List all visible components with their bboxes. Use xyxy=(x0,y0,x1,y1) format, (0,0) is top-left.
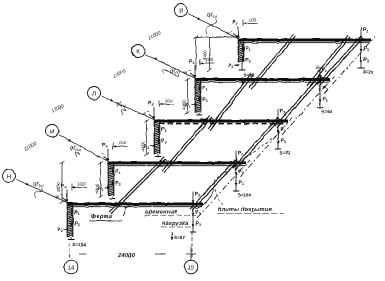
load P1 row К left column xyxy=(198,85,208,92)
load P4 row Л above beam xyxy=(148,101,155,120)
axis line М xyxy=(59,135,109,162)
axis circle М xyxy=(46,125,59,138)
load P3 row И left column xyxy=(241,56,251,64)
axis spacing dimension 12000 xyxy=(50,103,65,115)
roof slab diagonal (left) Н-М xyxy=(109,157,166,214)
wind load w row К xyxy=(184,70,196,77)
load P1 row Л right support xyxy=(277,127,286,133)
beam (ферма) row Н xyxy=(68,204,203,207)
dimension 100 row М xyxy=(113,141,128,150)
column base tick & reaction S=113 row К xyxy=(196,113,214,123)
label временная нагрузка (temporary load) xyxy=(144,188,213,227)
axis line Н xyxy=(16,179,68,203)
column base tick & reaction S=104 row Н xyxy=(68,237,87,247)
column base tick & reaction S=113 row Л xyxy=(155,154,173,164)
load P3 row Л left column xyxy=(157,137,167,145)
load P3 row К right support xyxy=(319,97,328,103)
dimension 24000 xyxy=(79,247,196,261)
hold-down arrow below И column base xyxy=(241,77,244,84)
load P1 row Л left column xyxy=(157,126,167,133)
beam (ферма) row Л xyxy=(155,121,288,124)
load label ql(н) xyxy=(33,181,44,199)
axis line И xyxy=(188,14,239,39)
svg-text:14: 14 xyxy=(68,265,75,272)
dimension 100 row Л xyxy=(159,99,174,108)
axis circle 14 xyxy=(64,260,78,274)
load P2 row Н right support xyxy=(192,192,201,204)
load P3 row М left column xyxy=(111,179,121,187)
axis spacing dimension 11000 xyxy=(23,141,38,153)
svg-text:100: 100 xyxy=(249,18,257,23)
svg-text:S=104: S=104 xyxy=(238,193,252,198)
axis 14 dashed line xyxy=(69,243,71,260)
right support line row Л xyxy=(277,121,279,149)
axis spacing dimension 11000 xyxy=(147,30,162,42)
axis 15 dash-dot К-И xyxy=(324,37,375,94)
load P3 row Н left column xyxy=(70,220,80,228)
load P2 row Л right support xyxy=(277,109,286,121)
roof slab diagonal (right) М-Л xyxy=(233,117,280,170)
load P4 row И above beam xyxy=(232,20,239,39)
roof slab diagonal (right) Л-К xyxy=(275,76,322,128)
axis 15 dash-dot Н-М xyxy=(197,160,250,218)
column base tick & reaction S=110 row М xyxy=(109,196,127,206)
right support line row М xyxy=(235,163,237,191)
column row Н (hatched) xyxy=(67,203,73,238)
svg-text:К: К xyxy=(136,48,140,55)
load label ql(к) xyxy=(163,68,180,77)
load P2 row М right support xyxy=(235,151,244,163)
svg-text:Н: Н xyxy=(7,173,11,180)
load P1 row М right support xyxy=(235,169,244,175)
load P1 row Н right support xyxy=(192,210,201,216)
column row И (hatched) xyxy=(238,39,244,63)
svg-text:15: 15 xyxy=(188,265,195,272)
load label ql(м) xyxy=(70,145,81,158)
wind load w row Н xyxy=(56,195,68,202)
dimension 4400 row Н xyxy=(56,162,65,204)
load P1 row К right support xyxy=(319,86,328,92)
svg-text:И: И xyxy=(179,7,183,14)
load P2 row М left column xyxy=(98,186,110,192)
svg-text:плиты покрытия: плиты покрытия xyxy=(218,207,272,213)
load P1 row И right support xyxy=(360,46,369,52)
dimension 100 row И xyxy=(243,18,258,27)
axis circle Н xyxy=(3,170,16,183)
load label ql(и) xyxy=(206,12,218,35)
svg-text:S=104: S=104 xyxy=(73,242,87,247)
reaction tick & S=91 row Л xyxy=(275,149,291,156)
column row Л (hatched) xyxy=(154,120,160,155)
axis 15 dashed line xyxy=(191,232,193,260)
axis circle И xyxy=(175,4,188,17)
wind load w row Л xyxy=(143,112,155,119)
load P4 row К above beam xyxy=(189,59,196,78)
svg-text:S=91: S=91 xyxy=(280,151,291,156)
roof slab diagonal (left) К-И xyxy=(249,34,296,89)
beam (ферма) row И xyxy=(239,40,371,43)
label плиты покрытия (roof slabs) xyxy=(214,136,284,214)
svg-text:24000: 24000 xyxy=(117,252,136,259)
column row М (hatched) xyxy=(108,162,114,197)
dimension 4400 row Л xyxy=(141,120,150,156)
roof slab diagonal (left) Л-К xyxy=(208,74,253,131)
axis 15 dash-dot М-Л xyxy=(240,118,292,177)
load P2 row К right support xyxy=(319,67,328,79)
svg-text:100: 100 xyxy=(78,182,86,187)
load P4 row Н above beam xyxy=(61,184,68,203)
dimension extension line row И xyxy=(194,35,241,72)
axis spacing dimension 13000 xyxy=(112,68,127,80)
reaction tick & S=68 row К xyxy=(317,108,333,115)
axis 15 dash-dot Л-К xyxy=(282,77,334,136)
load P1 row И left column xyxy=(241,45,251,52)
right support line row К xyxy=(319,80,321,108)
wind load w row И xyxy=(227,31,239,38)
svg-text:4400: 4400 xyxy=(203,50,208,60)
load P1 row М left column xyxy=(111,168,121,175)
reaction tick & S=67 row Н xyxy=(171,232,197,240)
axis line Л xyxy=(101,96,155,120)
svg-text:4400: 4400 xyxy=(182,100,187,110)
load P2 row И left column xyxy=(228,63,240,69)
svg-text:100: 100 xyxy=(119,141,127,146)
dimension 4400 row М xyxy=(95,162,104,198)
load P3 row М right support xyxy=(235,180,244,186)
svg-text:временная: временная xyxy=(145,210,178,216)
load P3 row И right support xyxy=(360,57,369,63)
label Ферма (truss) xyxy=(90,205,130,221)
load P2 row Н left column xyxy=(57,227,69,233)
axis circle 15 xyxy=(184,260,198,274)
beam (ферма) row К xyxy=(196,80,330,83)
dimension 100 row Н xyxy=(72,182,87,191)
svg-text:нагрузка: нагрузка xyxy=(162,221,188,227)
svg-text:S=23: S=23 xyxy=(363,70,374,75)
beam (ферма) row М xyxy=(109,163,246,166)
reaction tick & S=23 row И xyxy=(358,68,374,75)
column row К (hatched) xyxy=(195,78,201,113)
svg-text:S=68: S=68 xyxy=(322,109,333,114)
roof slab diagonal (right) К-И xyxy=(317,36,363,86)
axis circle К xyxy=(132,45,145,58)
svg-text:S=67: S=67 xyxy=(174,235,185,240)
svg-text:4400: 4400 xyxy=(95,183,100,193)
load label ql(л) xyxy=(116,101,127,116)
axis circle Л xyxy=(88,87,101,100)
load P4 row М above beam xyxy=(102,143,109,162)
svg-text:100: 100 xyxy=(165,99,173,104)
wind load w row М xyxy=(97,154,109,161)
load P2 row Л left column xyxy=(144,144,156,150)
reaction tick & S=104 row М xyxy=(233,191,251,198)
svg-text:Л: Л xyxy=(92,90,96,97)
axis line К xyxy=(145,54,196,78)
roof slab diagonal (extra) К-И xyxy=(307,35,350,87)
column base tick & reaction S=98 row И xyxy=(239,62,255,78)
dimension 100 row К xyxy=(200,57,215,66)
svg-text:4400: 4400 xyxy=(141,141,146,151)
svg-text:4400: 4400 xyxy=(56,182,61,192)
right support line row И xyxy=(360,40,362,68)
dimension 4400 row К xyxy=(182,78,191,114)
load P3 row Н right support xyxy=(192,221,201,227)
slab mark В xyxy=(316,65,320,71)
load P2 row И right support xyxy=(360,28,369,40)
svg-text:Ферма: Ферма xyxy=(91,213,113,220)
load P1 row Н left column xyxy=(70,209,80,216)
roof slab diagonal (right) Н-М xyxy=(190,159,238,211)
load P2 row К left column xyxy=(185,103,197,109)
load P3 row К left column xyxy=(198,96,208,104)
right support line row Н xyxy=(192,204,194,232)
roof slab diagonal (left) М-Л xyxy=(162,115,212,173)
svg-text:М: М xyxy=(49,128,54,135)
load P3 row Л right support xyxy=(277,138,286,144)
